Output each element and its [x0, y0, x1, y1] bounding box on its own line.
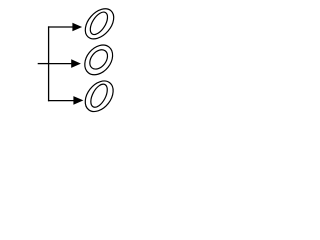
wire: vertical bus: [48, 26, 50, 101]
arrowhead: top branch: [72, 23, 82, 32]
node: bottom ellipse ring: [80, 76, 119, 117]
arrowhead: middle branch: [71, 59, 81, 68]
wire: middle branch: [49, 63, 72, 65]
wire: bottom branch: [48, 100, 74, 102]
node: top ellipse ring: [80, 3, 120, 44]
wire: input feed line: [38, 63, 49, 65]
node: middle ellipse ring: [79, 40, 118, 81]
wire: top branch: [48, 26, 73, 28]
arrowhead: bottom branch: [73, 96, 83, 105]
